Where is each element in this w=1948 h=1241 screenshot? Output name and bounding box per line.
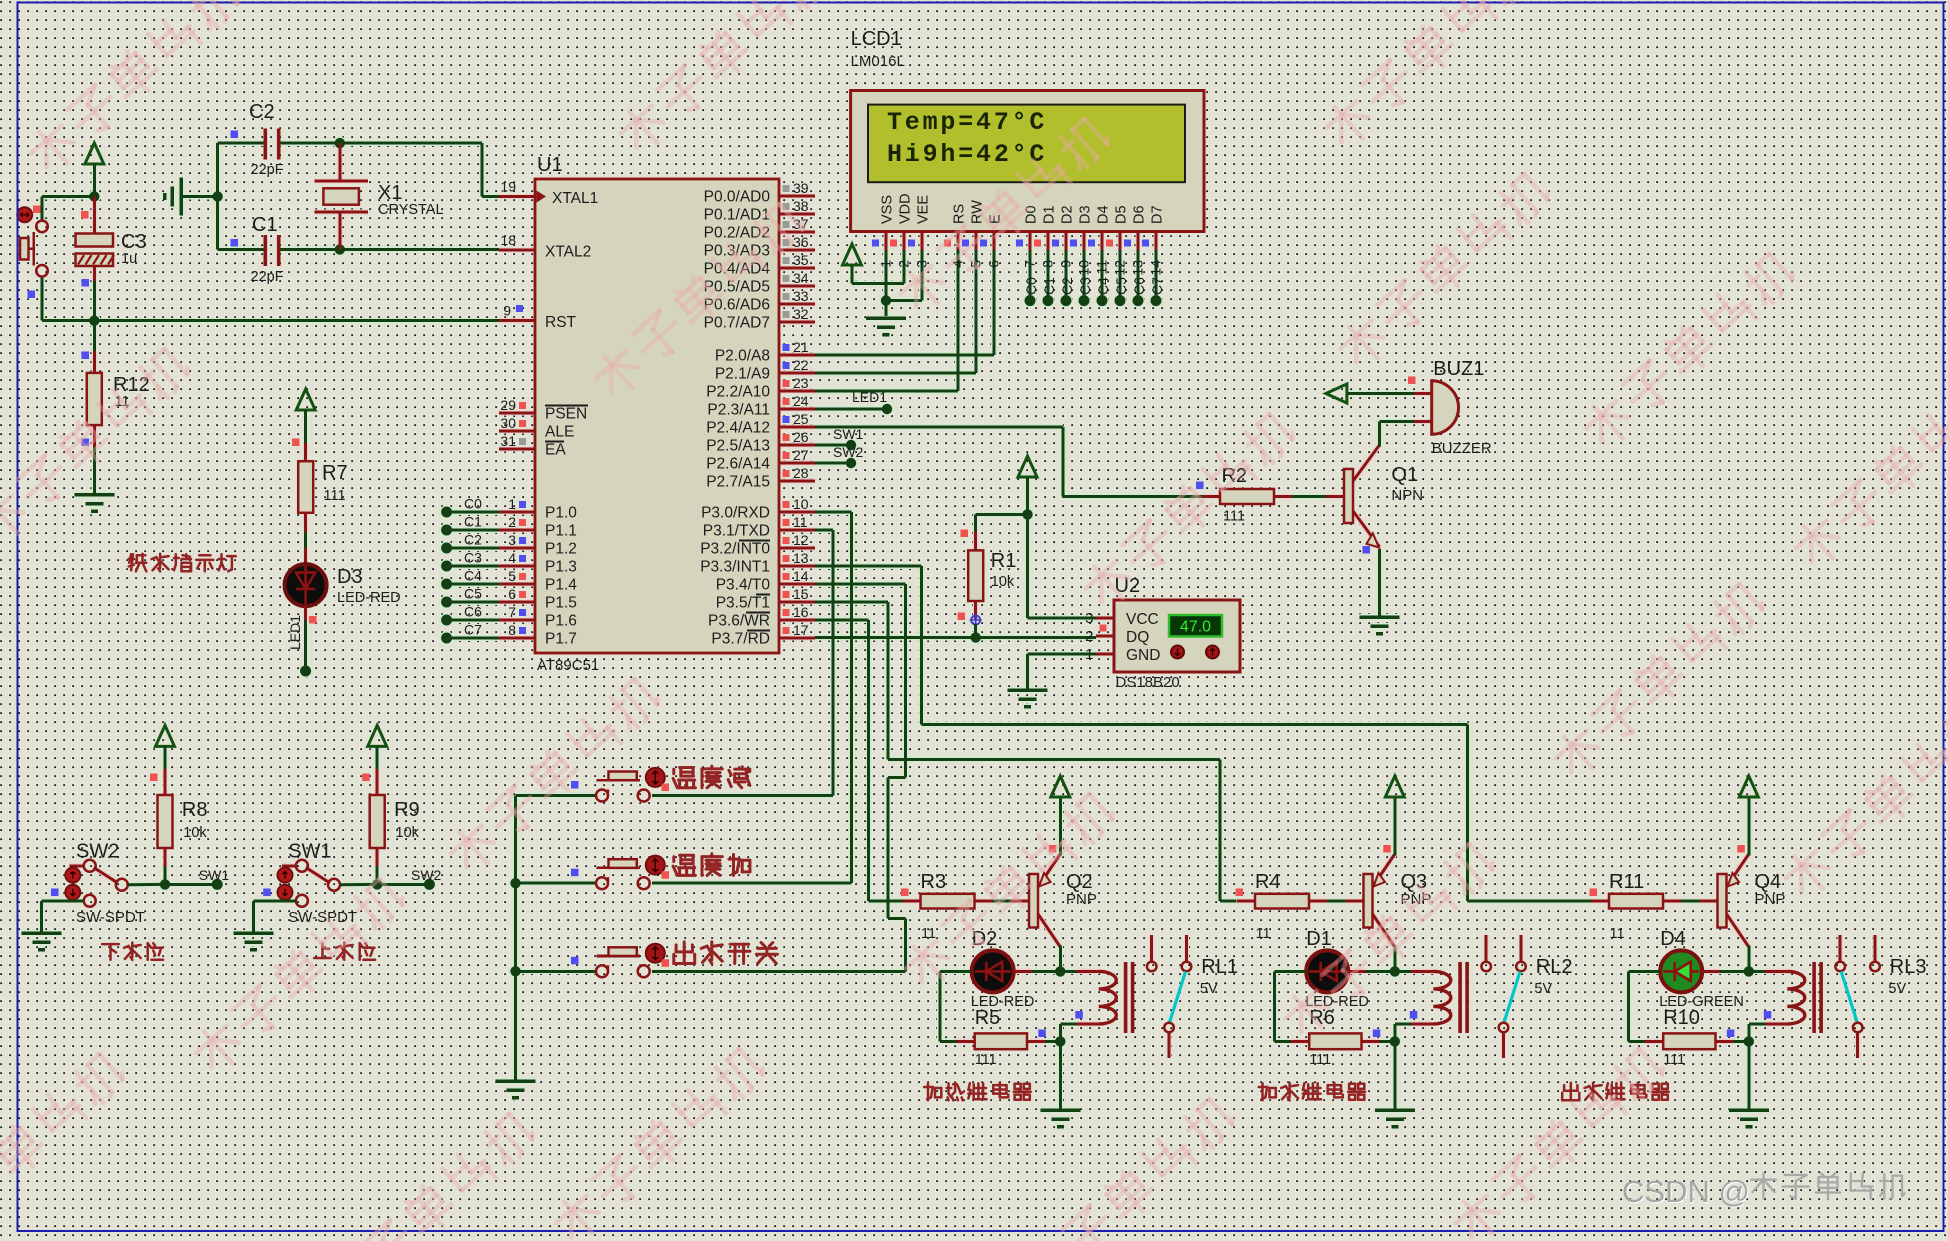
svg-text:R1: R1 [991,550,1017,572]
svg-text:R3: R3 [921,871,947,893]
svg-text:R11: R11 [1609,871,1644,893]
svg-text:C3: C3 [464,550,482,566]
svg-text:U1: U1 [537,154,563,176]
svg-text:3: 3 [914,260,930,268]
svg-text:18: 18 [500,232,516,248]
svg-text:47.0: 47.0 [1180,619,1211,636]
svg-text:RL3: RL3 [1890,956,1927,978]
svg-text:15: 15 [793,586,809,602]
svg-text:C1: C1 [464,514,482,530]
svg-text:SW2: SW2 [411,867,442,883]
svg-text:39: 39 [793,180,809,196]
svg-text:SW1: SW1 [833,426,864,442]
svg-text:6: 6 [986,260,1002,268]
svg-text:C4: C4 [1095,277,1111,295]
svg-text:RL1: RL1 [1201,956,1238,978]
svg-text:31: 31 [500,433,516,449]
svg-text:33: 33 [793,288,809,304]
svg-text:C2: C2 [464,532,482,548]
svg-text:D1: D1 [1042,205,1058,224]
svg-text:D4: D4 [1096,205,1112,224]
svg-text:ALE: ALE [545,424,574,441]
svg-text:Temp=47°C: Temp=47°C [887,108,1047,137]
svg-text:LM016L: LM016L [851,53,905,70]
svg-text:35: 35 [793,252,809,268]
svg-text:P2.5/A13: P2.5/A13 [706,438,770,455]
svg-text:EA: EA [545,442,566,459]
svg-text:9: 9 [1058,260,1074,268]
svg-text:10: 10 [793,496,809,512]
svg-text:R4: R4 [1255,871,1281,893]
svg-text:AT89C51: AT89C51 [537,657,599,674]
svg-text:CRYSTAL: CRYSTAL [378,202,444,218]
svg-text:Q4: Q4 [1755,871,1782,893]
svg-text:Q2: Q2 [1066,871,1093,893]
svg-text:32: 32 [793,306,809,322]
svg-text:P2.0/A8: P2.0/A8 [715,348,770,365]
svg-text:C6: C6 [464,604,482,620]
svg-text:14: 14 [1148,260,1164,276]
svg-text:111: 111 [1309,1052,1331,1068]
svg-text:C7: C7 [464,622,482,638]
svg-text:RL2: RL2 [1536,956,1573,978]
svg-text:P3.0/RXD: P3.0/RXD [701,505,770,522]
svg-text:9: 9 [503,303,511,319]
svg-text:17: 17 [793,622,809,638]
svg-text:P2.7/A15: P2.7/A15 [706,474,770,491]
svg-text:3: 3 [508,532,516,548]
svg-text:D3: D3 [337,566,363,588]
svg-text:D2: D2 [1060,205,1076,224]
svg-text:2: 2 [896,260,912,268]
svg-text:7: 7 [508,604,516,620]
svg-text:36: 36 [793,234,809,250]
svg-text:SW-SPDT: SW-SPDT [288,909,357,926]
svg-text:C0: C0 [1023,277,1039,295]
svg-text:LED-RED: LED-RED [337,590,401,606]
svg-text:LED1: LED1 [287,615,303,650]
svg-text:P3.1/TXD: P3.1/TXD [703,523,770,540]
svg-text:13: 13 [793,550,809,566]
svg-text:VCC: VCC [1126,611,1159,628]
svg-text:LCD1: LCD1 [851,28,902,50]
svg-text:D6: D6 [1132,205,1148,224]
svg-text:PNP: PNP [1755,891,1786,908]
svg-text:SW-SPDT: SW-SPDT [76,909,145,926]
svg-text:C2: C2 [249,101,275,123]
svg-text:C2: C2 [1059,277,1075,295]
svg-text:PNP: PNP [1066,891,1097,908]
svg-text:P3.6/WR: P3.6/WR [708,613,770,630]
svg-text:21: 21 [793,339,809,355]
svg-text:12: 12 [1112,260,1128,276]
svg-text:P2.4/A12: P2.4/A12 [706,420,770,437]
svg-text:C7: C7 [1149,277,1165,295]
svg-text:P1.7: P1.7 [545,631,577,648]
svg-text:SW1: SW1 [288,841,331,863]
svg-text:C5: C5 [1113,277,1129,295]
svg-text:14: 14 [793,568,809,584]
svg-text:22: 22 [793,357,809,373]
svg-text:28: 28 [793,465,809,481]
svg-text:BUZ1: BUZ1 [1433,358,1484,380]
svg-text:10k: 10k [396,825,420,841]
svg-text:DQ: DQ [1126,629,1149,646]
svg-text:R8: R8 [182,799,208,821]
svg-text:111: 111 [324,488,346,504]
svg-text:CSDN @: CSDN @ [1622,1174,1750,1209]
svg-text:SW2: SW2 [76,841,119,863]
svg-text:Hi9h=42°C: Hi9h=42°C [887,140,1047,169]
svg-text:111: 111 [975,1052,997,1068]
svg-text:5V: 5V [1200,981,1218,997]
svg-text:38: 38 [793,198,809,214]
svg-text:P2.1/A9: P2.1/A9 [715,366,770,383]
svg-text:SW1: SW1 [199,867,230,883]
svg-text:6: 6 [508,586,516,602]
svg-text:P1.4: P1.4 [545,577,577,594]
svg-text:P1.1: P1.1 [545,523,577,540]
svg-text:SW2: SW2 [833,444,864,460]
svg-text:12: 12 [793,532,809,548]
svg-text:5: 5 [508,568,516,584]
svg-text:4: 4 [508,550,516,566]
svg-text:10: 10 [1076,260,1092,276]
svg-text:10k: 10k [991,574,1015,590]
svg-text:NPN: NPN [1391,487,1423,504]
svg-text:1: 1 [878,260,894,268]
svg-text:11: 11 [921,926,936,942]
svg-text:P1.0: P1.0 [545,505,577,522]
svg-text:XTAL2: XTAL2 [545,244,591,261]
svg-text:11: 11 [1094,260,1110,275]
svg-text:R7: R7 [322,462,348,484]
svg-text:19: 19 [500,179,516,195]
svg-text:XTAL1: XTAL1 [552,190,598,207]
svg-text:30: 30 [500,415,516,431]
svg-text:P1.2: P1.2 [545,541,577,558]
svg-text:11: 11 [1256,926,1271,942]
svg-text:34: 34 [793,270,809,286]
svg-text:P0.0/AD0: P0.0/AD0 [704,189,771,206]
svg-text:C1: C1 [1041,277,1057,295]
svg-text:DS18B20: DS18B20 [1116,674,1180,691]
svg-text:P3.3/INT1: P3.3/INT1 [700,559,770,576]
svg-text:C3: C3 [121,231,147,253]
svg-text:26: 26 [793,429,809,445]
svg-text:RS: RS [952,204,968,224]
svg-text:C6: C6 [1131,277,1147,295]
svg-text:LED1: LED1 [852,389,887,405]
svg-text:22pF: 22pF [251,269,284,285]
svg-text:C1: C1 [252,214,278,236]
svg-text:16: 16 [793,604,809,620]
svg-text:VSS: VSS [880,195,896,224]
svg-text:C4: C4 [464,568,482,584]
svg-text:VDD: VDD [898,193,914,224]
svg-text:P3.5/T1: P3.5/T1 [716,595,770,612]
svg-text:RST: RST [545,314,577,331]
svg-text:P3.4/T0: P3.4/T0 [716,577,771,594]
svg-text:D4: D4 [1660,928,1686,950]
svg-text:R9: R9 [394,799,420,821]
svg-text:111: 111 [1663,1052,1685,1068]
svg-text:P3.7/RD: P3.7/RD [711,631,770,648]
svg-text:11: 11 [793,514,808,530]
svg-text:Q1: Q1 [1391,464,1418,486]
svg-text:P2.6/A14: P2.6/A14 [706,456,770,473]
svg-text:8: 8 [508,622,516,638]
svg-text:1u: 1u [121,251,137,267]
svg-text:BUZZER: BUZZER [1432,440,1492,457]
svg-text:P0.1/AD1: P0.1/AD1 [704,207,770,224]
svg-text:7: 7 [1022,260,1038,268]
svg-text:P2.2/A10: P2.2/A10 [706,384,770,401]
svg-text:P2.3/A11: P2.3/A11 [707,402,770,419]
svg-text:D3: D3 [1078,205,1094,224]
svg-text:5V: 5V [1888,981,1906,997]
svg-text:11: 11 [1610,926,1625,942]
svg-text:P1.5: P1.5 [545,595,577,612]
svg-text:P3.2/INT0: P3.2/INT0 [700,541,770,558]
svg-text:8: 8 [1040,260,1056,268]
svg-text:VEE: VEE [916,195,932,224]
svg-text:25: 25 [793,411,809,427]
svg-text:C0: C0 [464,496,482,512]
svg-text:24: 24 [793,393,809,409]
svg-text:X1: X1 [378,182,402,204]
svg-text:P1.3: P1.3 [545,559,577,576]
svg-text:D7: D7 [1150,205,1166,224]
svg-text:GND: GND [1126,647,1160,664]
svg-text:C3: C3 [1077,277,1093,295]
svg-text:22pF: 22pF [251,162,284,178]
svg-text:C5: C5 [464,586,482,602]
svg-text:2: 2 [508,514,516,530]
svg-text:R10: R10 [1663,1007,1700,1029]
svg-text:29: 29 [500,397,516,413]
svg-text:R5: R5 [975,1007,1001,1029]
svg-text:D1: D1 [1306,928,1332,950]
svg-text:1: 1 [508,496,516,512]
svg-text:23: 23 [793,375,809,391]
svg-text:27: 27 [793,447,809,463]
svg-text:5V: 5V [1534,981,1552,997]
svg-text:10k: 10k [183,825,207,841]
svg-text:111: 111 [1223,509,1245,525]
svg-text:2: 2 [1085,628,1093,645]
svg-text:PSEN: PSEN [545,406,587,423]
svg-text:D5: D5 [1114,205,1130,224]
svg-text:13: 13 [1130,260,1146,276]
svg-text:P1.6: P1.6 [545,613,577,630]
